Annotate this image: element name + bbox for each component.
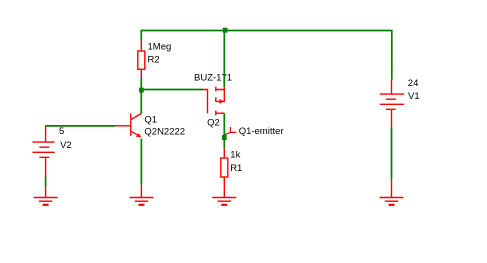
svg-text:Q1: Q1 bbox=[144, 114, 157, 125]
wire Q1 emitter down bbox=[140, 139, 142, 185]
pin ground stub below V2 bbox=[45, 187, 47, 198]
ground below Q1 emitter bbox=[130, 198, 154, 205]
wire gate net horizontal bbox=[141, 89, 202, 91]
resistor R1 bbox=[221, 148, 228, 197]
wire V1 minus to ground bbox=[391, 127, 393, 179]
svg-text:5: 5 bbox=[59, 126, 64, 137]
wire V2 minus to ground bbox=[45, 176, 47, 186]
label R2 value 1Meg bbox=[148, 41, 172, 52]
label V1 name bbox=[408, 91, 420, 102]
label Q1 part number Q2N2222 bbox=[144, 127, 185, 138]
svg-text:V2: V2 bbox=[60, 140, 72, 151]
label R2 name bbox=[148, 55, 160, 66]
wire node down to Q1 collector bbox=[140, 89, 142, 114]
node Q1-emitter junction bbox=[222, 135, 227, 140]
node R2/Q1/gate junction bbox=[139, 88, 144, 93]
label R1 value 1k bbox=[230, 150, 240, 161]
ground below V1 bbox=[380, 198, 404, 205]
transistor Q1 Q2N2222 bbox=[115, 114, 141, 138]
pin ground stub below Q1 emitter bbox=[140, 185, 142, 198]
label R1 name bbox=[230, 163, 242, 174]
voltage source V1 bbox=[380, 80, 404, 127]
wire top rail down to V1 bbox=[391, 30, 393, 80]
label V2 name bbox=[60, 140, 72, 151]
label Q2 name bbox=[207, 117, 220, 128]
label Q1 name bbox=[144, 114, 157, 125]
svg-text:Q1-emitter: Q1-emitter bbox=[239, 126, 284, 137]
transistor Q2 MOSFET BUZ-171 bbox=[203, 87, 225, 116]
svg-text:Q2: Q2 bbox=[207, 117, 220, 128]
wire R2 bottom to node bbox=[140, 77, 142, 89]
wire Q2 source down to node bbox=[223, 113, 225, 148]
svg-text:1k: 1k bbox=[230, 150, 240, 161]
pin Q2 drain red stub bbox=[223, 87, 225, 89]
resistor R2 bbox=[138, 40, 145, 77]
wire base net from V2 to Q1 bbox=[46, 125, 116, 127]
wire from top rail down to R2 bbox=[140, 30, 142, 41]
svg-text:24: 24 bbox=[408, 78, 419, 89]
label V1 value 24 bbox=[408, 78, 419, 89]
node top junction bbox=[223, 28, 228, 33]
svg-text:Q2N2222: Q2N2222 bbox=[144, 127, 185, 138]
label net name Q1-emitter bbox=[239, 126, 284, 137]
svg-text:BUZ-171: BUZ-171 bbox=[194, 72, 232, 83]
ground below V2 bbox=[34, 198, 58, 205]
svg-text:R2: R2 bbox=[148, 55, 160, 66]
svg-text:V1: V1 bbox=[408, 91, 420, 102]
wire top junction down to Q2 drain bbox=[223, 30, 225, 88]
voltage source V2 bbox=[33, 125, 55, 176]
net label leader Q1-emitter bbox=[225, 127, 236, 135]
pin ground stub below V1 bbox=[391, 179, 393, 198]
ground below R1 bbox=[212, 198, 236, 205]
svg-text:R1: R1 bbox=[230, 163, 242, 174]
wire top rail bbox=[141, 30, 391, 32]
svg-text:1Meg: 1Meg bbox=[148, 41, 172, 52]
label V2 value 5 bbox=[59, 126, 64, 137]
label Q2 part number BUZ-171 bbox=[194, 72, 232, 83]
